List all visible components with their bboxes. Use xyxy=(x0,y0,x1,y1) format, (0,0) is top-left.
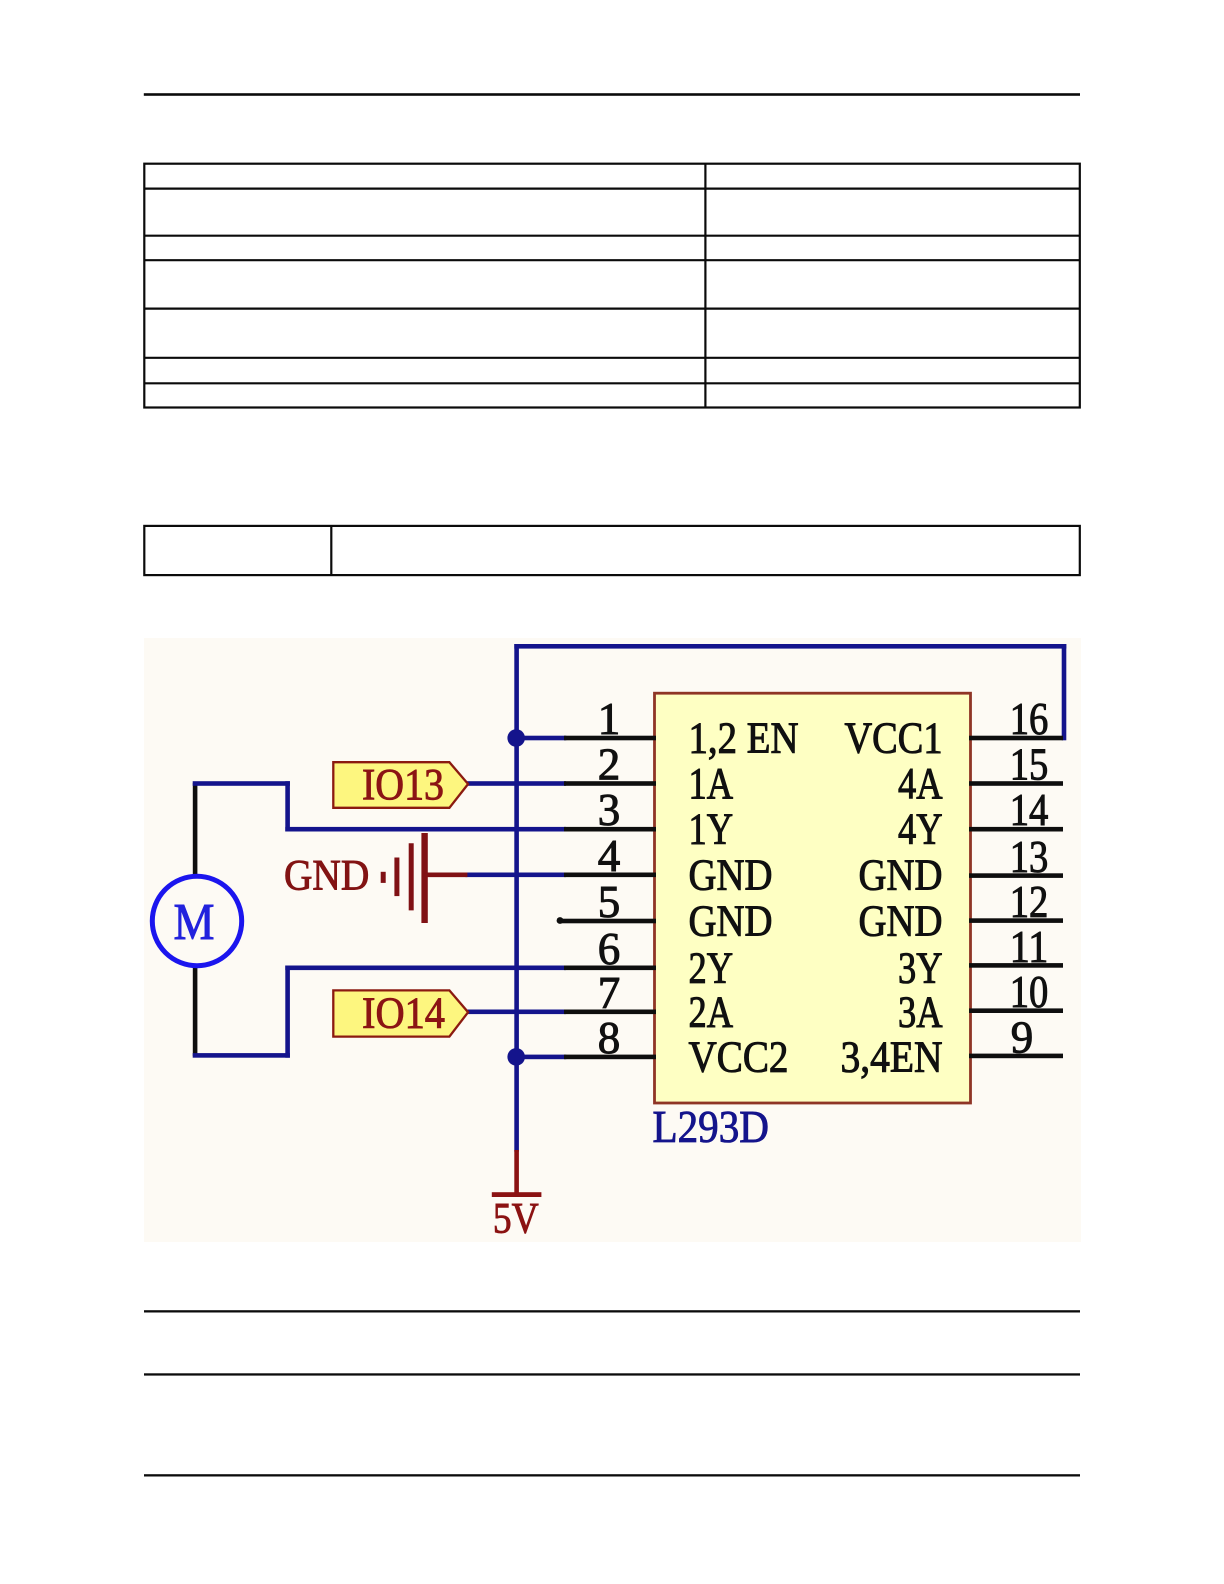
svg-text:GND: GND xyxy=(689,850,773,899)
svg-text:3A: 3A xyxy=(898,987,943,1036)
pin 8 line xyxy=(564,1055,656,1060)
pin 5 line xyxy=(559,919,656,924)
net label flag IO14 xyxy=(333,990,468,1036)
svg-text:GND: GND xyxy=(859,850,943,899)
pin 5 unconnected end mark xyxy=(557,917,564,924)
wire: pin 3 (1Y) horizontal xyxy=(285,827,566,832)
pin 3 line xyxy=(564,827,656,832)
pin 11 line xyxy=(969,963,1063,968)
pin 1 line xyxy=(564,736,656,741)
pin 4 line xyxy=(564,873,656,878)
power port 5V stem (red) xyxy=(514,1150,519,1193)
pin 15 line xyxy=(969,781,1063,786)
svg-text:GND: GND xyxy=(689,897,773,946)
wire: pin1 stub from bus xyxy=(514,736,566,741)
wire: motor top black leg xyxy=(193,783,198,876)
svg-text:IO14: IO14 xyxy=(362,989,445,1038)
wire: IO13 to pin 2 xyxy=(466,781,566,786)
svg-text:IO13: IO13 xyxy=(362,760,444,809)
svg-text:4: 4 xyxy=(598,831,621,881)
power port GND (battery bars) xyxy=(383,833,467,923)
wire: left vertical (2Y to motor bottom) xyxy=(285,966,290,1058)
svg-text:10: 10 xyxy=(1010,967,1049,1017)
svg-text:2Y: 2Y xyxy=(689,943,734,992)
svg-text:GND: GND xyxy=(859,897,943,946)
table 1 (empty, 7 rows, 2 columns) xyxy=(144,164,1080,408)
svg-text:13: 13 xyxy=(1010,832,1049,882)
bottom rule 1 xyxy=(144,1310,1080,1312)
wire: top horizontal 5V to pin16 xyxy=(514,644,1066,649)
pin 16 line xyxy=(969,736,1063,741)
wire: pin 8 stub from bus xyxy=(514,1055,566,1060)
svg-text:7: 7 xyxy=(598,968,621,1018)
wire: pin 6 (2Y) horizontal xyxy=(285,966,566,971)
svg-text:16: 16 xyxy=(1010,694,1049,744)
schematic scanned background xyxy=(144,638,1081,1242)
svg-text:3Y: 3Y xyxy=(898,943,943,992)
wire: motor bottom black leg xyxy=(193,967,198,1057)
pin 2 line xyxy=(564,781,656,786)
svg-text:11: 11 xyxy=(1010,922,1049,972)
svg-text:15: 15 xyxy=(1010,740,1049,790)
junction node at pin 8 xyxy=(507,1048,525,1066)
svg-text:6: 6 xyxy=(598,924,621,974)
svg-text:3: 3 xyxy=(598,785,621,835)
pin 13 line xyxy=(969,873,1063,878)
svg-text:12: 12 xyxy=(1010,877,1049,927)
svg-text:5V: 5V xyxy=(493,1195,539,1242)
wire: motor bottom horizontal xyxy=(193,1053,290,1058)
svg-text:VCC1: VCC1 xyxy=(845,714,943,763)
pin 14 line xyxy=(969,827,1063,832)
pin 9 line xyxy=(969,1054,1063,1059)
svg-text:2: 2 xyxy=(598,740,621,790)
wire: left vertical (motor top to 1Y) xyxy=(285,781,290,831)
junction node at pin 1 xyxy=(507,729,525,747)
bottom rule 3 xyxy=(144,1474,1080,1476)
svg-text:14: 14 xyxy=(1010,785,1049,835)
wire: IO14 to pin 7 xyxy=(466,1010,566,1015)
svg-text:1A: 1A xyxy=(689,759,734,808)
svg-text:8: 8 xyxy=(598,1013,621,1063)
wire: right vertical drop to pin 16 xyxy=(1062,644,1067,740)
pin 12 line xyxy=(969,918,1063,923)
motor M1 circle xyxy=(152,876,241,965)
svg-text:4Y: 4Y xyxy=(898,805,943,854)
net label flag IO13 xyxy=(333,762,468,808)
svg-text:1Y: 1Y xyxy=(689,805,734,854)
svg-text:9: 9 xyxy=(1011,1012,1034,1062)
svg-text:M: M xyxy=(174,894,215,951)
svg-text:1,2 EN: 1,2 EN xyxy=(689,714,799,763)
svg-text:1: 1 xyxy=(598,694,621,744)
table 2 (single row, 2 columns) xyxy=(144,526,1080,575)
power port 5V bar xyxy=(492,1192,542,1197)
pin 10 line xyxy=(969,1008,1063,1013)
svg-text:2A: 2A xyxy=(689,987,734,1036)
svg-text:5: 5 xyxy=(598,877,621,927)
svg-text:GND: GND xyxy=(284,853,369,900)
IC U1 L293D body xyxy=(655,693,971,1103)
bottom rule 2 xyxy=(144,1373,1080,1375)
pin 6 line xyxy=(564,966,656,971)
svg-text:3,4EN: 3,4EN xyxy=(841,1032,943,1081)
wire: VCC bus vertical xyxy=(514,644,519,1152)
svg-text:VCC2: VCC2 xyxy=(689,1032,789,1081)
svg-text:4A: 4A xyxy=(898,759,943,808)
pin 7 line xyxy=(564,1010,656,1015)
svg-text:L293D: L293D xyxy=(653,1102,770,1152)
top horizontal rule xyxy=(144,93,1080,96)
wire: GND to pin 4 xyxy=(465,873,566,878)
wire: motor top horizontal xyxy=(193,781,290,786)
